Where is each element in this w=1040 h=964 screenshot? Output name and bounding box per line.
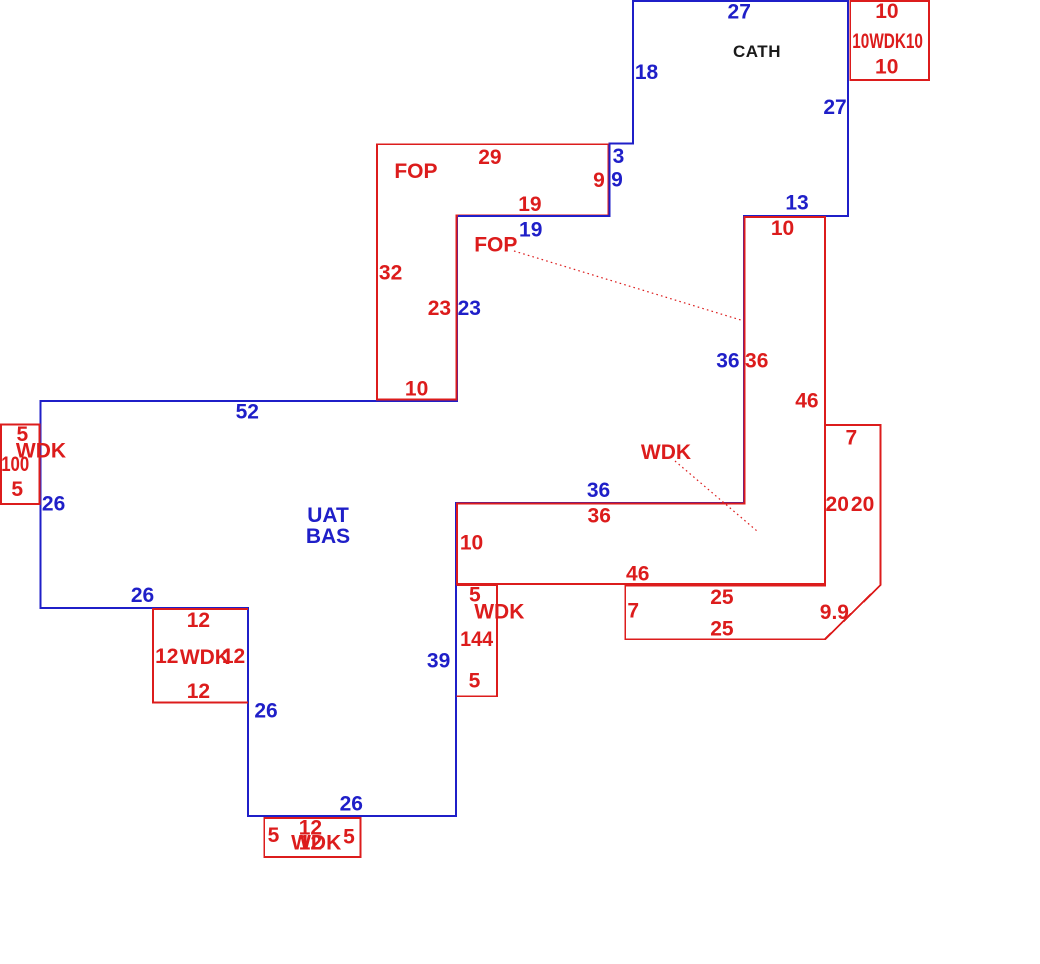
FOP area outline (left), red L-shape xyxy=(377,144,608,399)
svg-text:13: 13 xyxy=(785,192,808,215)
svg-text:3: 3 xyxy=(613,145,625,168)
WDK deck rect, bottom center xyxy=(264,818,360,857)
svg-text:5: 5 xyxy=(343,826,355,849)
svg-text:20: 20 xyxy=(826,493,849,516)
svg-text:23: 23 xyxy=(428,297,451,320)
svg-text:WDK: WDK xyxy=(641,441,691,464)
FOP/WDK right area outline, red L-shape xyxy=(457,217,825,584)
svg-text:29: 29 xyxy=(478,146,501,169)
svg-text:9: 9 xyxy=(611,169,623,192)
svg-text:12: 12 xyxy=(222,645,245,668)
svg-text:36: 36 xyxy=(745,350,768,373)
svg-text:46: 46 xyxy=(626,563,649,586)
svg-text:10: 10 xyxy=(405,377,428,400)
svg-text:18: 18 xyxy=(635,61,659,84)
svg-text:5: 5 xyxy=(11,478,23,501)
svg-text:5: 5 xyxy=(268,824,280,847)
svg-text:144: 144 xyxy=(460,628,493,651)
svg-text:7: 7 xyxy=(846,427,858,450)
svg-text:27: 27 xyxy=(823,96,846,119)
svg-text:19: 19 xyxy=(518,193,541,216)
svg-text:9.9: 9.9 xyxy=(820,601,849,624)
svg-text:46: 46 xyxy=(795,389,818,412)
svg-text:FOP: FOP xyxy=(474,234,517,257)
svg-text:36: 36 xyxy=(587,479,610,502)
svg-text:WDK: WDK xyxy=(474,601,524,624)
dotted leader from FOP label to right strip xyxy=(514,251,744,321)
svg-text:25: 25 xyxy=(710,618,734,641)
svg-text:10: 10 xyxy=(771,217,794,240)
svg-text:9: 9 xyxy=(593,169,605,192)
WDK deck rect, middle xyxy=(457,585,497,696)
svg-text:10: 10 xyxy=(875,0,898,23)
svg-text:12: 12 xyxy=(187,609,210,632)
WDK deck rect, bottom left xyxy=(153,609,248,703)
svg-text:19: 19 xyxy=(519,218,542,241)
svg-text:20: 20 xyxy=(851,493,874,516)
svg-text:25: 25 xyxy=(710,586,734,609)
svg-text:36: 36 xyxy=(716,350,739,373)
svg-text:39: 39 xyxy=(427,650,450,673)
svg-text:52: 52 xyxy=(236,400,259,423)
svg-text:WDK: WDK xyxy=(291,832,341,855)
blue edge overlay (9 and 19 edges drawn over red) xyxy=(458,144,610,216)
dotted leader from WDK label to right area xyxy=(675,461,757,531)
svg-text:BAS: BAS xyxy=(306,525,350,548)
svg-text:7: 7 xyxy=(627,600,639,623)
svg-text:100: 100 xyxy=(1,453,29,476)
svg-text:10: 10 xyxy=(875,56,898,79)
svg-text:26: 26 xyxy=(131,584,154,607)
svg-text:26: 26 xyxy=(42,492,65,515)
svg-text:23: 23 xyxy=(458,297,481,320)
svg-text:5: 5 xyxy=(469,670,481,693)
svg-text:10WDK10: 10WDK10 xyxy=(852,30,923,53)
svg-text:CATH: CATH xyxy=(733,42,781,61)
svg-text:32: 32 xyxy=(379,262,402,285)
svg-text:36: 36 xyxy=(588,505,611,528)
WDK deck rect, left xyxy=(1,424,40,504)
svg-text:10: 10 xyxy=(460,532,483,555)
svg-text:FOP: FOP xyxy=(394,160,437,183)
svg-text:26: 26 xyxy=(340,793,363,816)
svg-text:UAT: UAT xyxy=(307,504,349,527)
main building outline (UAT BAS + CATH), blue xyxy=(41,1,849,816)
lower right red area outline with 9.9 diagonal xyxy=(625,425,880,639)
svg-text:12: 12 xyxy=(187,680,210,703)
svg-text:27: 27 xyxy=(728,1,751,24)
WDK deck rect, top right xyxy=(850,1,929,80)
svg-text:12: 12 xyxy=(155,645,178,668)
svg-text:26: 26 xyxy=(254,700,277,723)
